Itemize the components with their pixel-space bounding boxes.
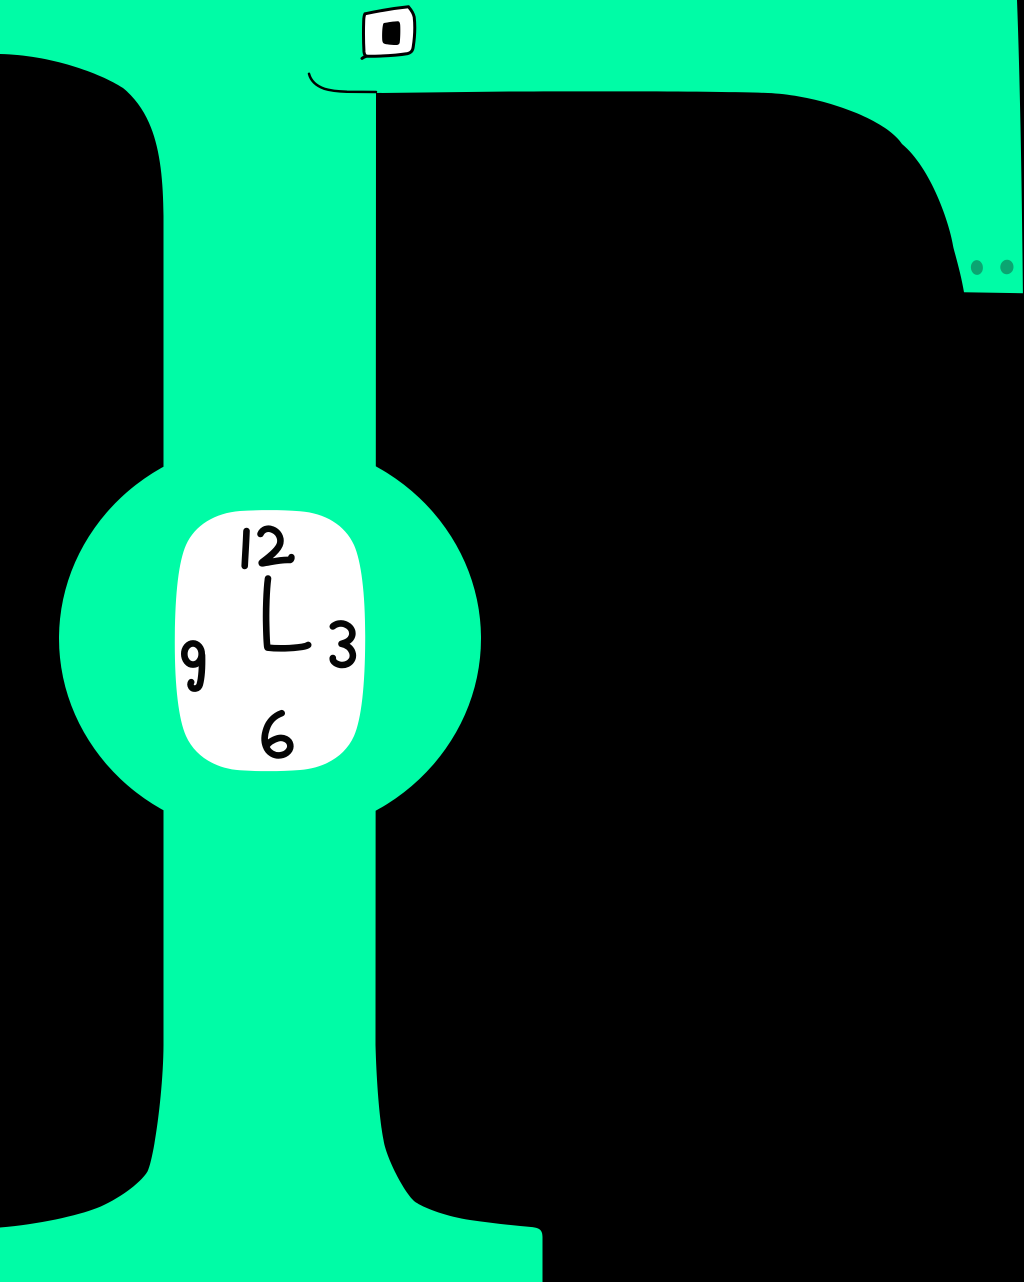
- mouth: [309, 74, 376, 92]
- 2 of 12: [261, 529, 292, 564]
- eye bottom-left tail: [362, 56, 367, 58]
- minute hand: [266, 579, 268, 647]
- 9 tail: [191, 655, 203, 689]
- hour hand: [268, 645, 309, 648]
- watch face: [175, 510, 365, 771]
- watch bulge: [59, 440, 481, 838]
- 6: [265, 713, 291, 755]
- pupil: [382, 21, 400, 45]
- nostrils: [970, 260, 983, 276]
- eye outline + white: [364, 7, 415, 57]
- 3: [333, 623, 353, 665]
- 9 head: [184, 643, 201, 664]
- digits: [184, 529, 353, 756]
- 1 of 12: [245, 531, 247, 566]
